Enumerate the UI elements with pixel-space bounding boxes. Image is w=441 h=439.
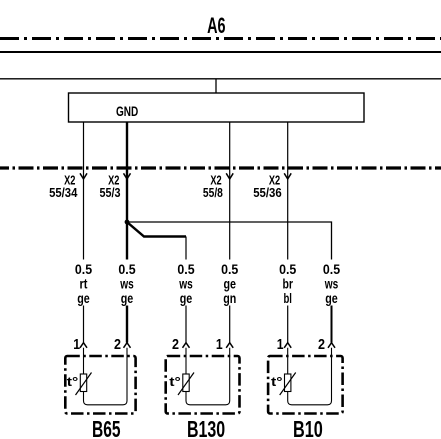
pin 1 arrow B130 — [226, 343, 233, 348]
inner wiring B130 — [186, 348, 230, 405]
svg-text:ge: ge — [180, 290, 193, 306]
wire W1 (rt ge) — [83, 122, 85, 260]
svg-text:ge: ge — [77, 290, 90, 306]
wire W6 lower segment (bold) — [331, 306, 333, 343]
connector arrow X2 55/34 — [80, 173, 87, 179]
wire W4 (ge gn) — [229, 122, 231, 260]
svg-text:B10: B10 — [293, 416, 323, 439]
branch wire to W3 (bold diagonal) — [127, 222, 186, 237]
component box B130 (dash-dot) — [166, 356, 240, 414]
wire W3 lower segment — [185, 237, 187, 260]
svg-text:55/34: 55/34 — [49, 185, 78, 200]
svg-text:55/8: 55/8 — [203, 185, 223, 200]
svg-text:2: 2 — [318, 336, 325, 353]
svg-text:55/36: 55/36 — [253, 185, 282, 200]
branch wire to W6 (horizontal) — [127, 222, 332, 260]
boundary line of A6 (dash-dot) — [0, 37, 441, 40]
svg-text:ge: ge — [325, 290, 338, 306]
pin 2 arrow B10 — [328, 343, 335, 348]
svg-text:B130: B130 — [187, 416, 225, 439]
svg-text:2: 2 — [114, 336, 121, 353]
svg-text:GND: GND — [116, 103, 138, 119]
thermistor element B65 — [80, 374, 86, 392]
junction node on W2 — [125, 220, 130, 225]
connector arrow X2 55/36 — [284, 173, 291, 179]
svg-text:2: 2 — [172, 336, 179, 353]
pin 1 arrow B10 — [284, 343, 291, 348]
connector arrow X2 55/3 — [124, 173, 131, 179]
pin 1 arrow B65 — [80, 343, 87, 348]
component box B10 (dash-dot) — [268, 356, 343, 414]
svg-text:ge: ge — [121, 290, 134, 306]
svg-text:t°: t° — [67, 374, 79, 389]
svg-text:1: 1 — [216, 336, 223, 353]
wire from bus to GND box — [215, 79, 217, 93]
component box B65 (dash-dot) — [65, 356, 135, 414]
inner wiring B10 — [288, 348, 332, 405]
wire W5 (br bl) — [287, 122, 289, 260]
thermistor element B130 — [183, 374, 189, 392]
svg-text:bl: bl — [283, 290, 292, 306]
bus line upper — [0, 51, 441, 53]
pin 2 arrow B130 — [183, 343, 190, 348]
boundary line X2 (dash-dot) — [0, 166, 441, 169]
pin 2 arrow B65 — [124, 343, 131, 348]
svg-text:A6: A6 — [207, 13, 225, 38]
bus line lower — [0, 78, 441, 80]
svg-text:t°: t° — [271, 374, 283, 389]
svg-text:t°: t° — [169, 374, 181, 389]
svg-text:1: 1 — [73, 336, 80, 353]
connector arrow X2 55/8 — [226, 173, 233, 179]
thermistor element B10 — [285, 374, 291, 392]
wire W2 (ws ge, bold ground wire) — [126, 122, 128, 260]
GND box — [69, 93, 365, 122]
svg-text:gn: gn — [223, 290, 236, 306]
svg-text:B65: B65 — [92, 416, 121, 439]
inner wiring B65 — [84, 348, 128, 405]
svg-text:1: 1 — [277, 336, 284, 353]
svg-text:55/3: 55/3 — [100, 185, 121, 200]
